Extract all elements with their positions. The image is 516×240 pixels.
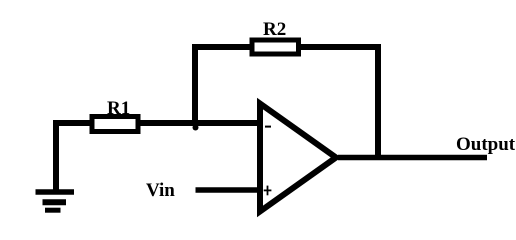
resistor R2 [252, 40, 299, 54]
wire: output [338, 155, 487, 161]
wire: input line from ground corner through R1 to inverting input [56, 123, 259, 193]
svg-text:R1: R1 [107, 98, 130, 119]
op-amp plus pin label [264, 186, 272, 196]
resistor R1 [92, 117, 138, 132]
svg-text:Vin: Vin [146, 180, 175, 201]
node: junction dot at inverting input [193, 125, 199, 131]
wire: Vin to non-inverting input [196, 187, 260, 193]
svg-text:R2: R2 [263, 19, 286, 40]
svg-text:Output: Output [456, 134, 516, 155]
op-amp U1 [260, 104, 336, 212]
wire: feedback loop from inverting node up, across top, down to output node [195, 47, 378, 160]
op-amp minus pin label [265, 126, 271, 128]
ground [36, 192, 75, 210]
